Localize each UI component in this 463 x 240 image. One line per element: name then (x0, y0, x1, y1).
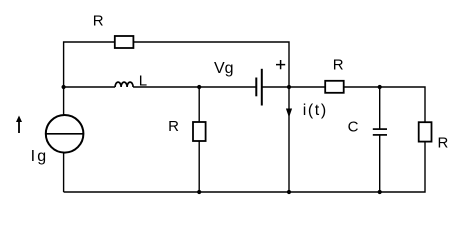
resistor R2 (193, 122, 206, 141)
svg-text:R: R (93, 13, 104, 30)
node junction dot B bottom (287, 190, 291, 194)
wire top-left vertical+horizontal to R1 (64, 42, 115, 87)
svg-text:i(t): i(t) (303, 102, 327, 119)
wire battery to node B (262, 86, 289, 88)
wire node B to R3 (289, 86, 325, 88)
wire capacitor branch lower (379, 135, 381, 192)
node junction dot A bottom (197, 190, 201, 194)
node junction dot C bottom (378, 190, 382, 194)
resistor R3 (325, 81, 344, 93)
svg-text:R: R (438, 134, 449, 151)
capacitor C top plate (373, 128, 387, 130)
current direction arrow (16, 116, 22, 134)
inductor L (115, 82, 133, 87)
resistor R1 (115, 36, 134, 48)
label plus sign (276, 60, 285, 69)
wire inductor to node A (133, 86, 199, 88)
node junction dot A top (197, 85, 201, 89)
resistor R4 (419, 122, 432, 141)
battery Vg short plate (255, 78, 257, 97)
svg-text:C: C (348, 118, 359, 135)
node junction dot B top (287, 85, 291, 89)
wire battery branch vertical (288, 87, 290, 192)
wire left vertical below source (63, 153, 65, 192)
current arrow i(t) (286, 109, 292, 118)
svg-text:Vg: Vg (214, 60, 234, 77)
wire top right of R1 (133, 42, 289, 87)
wire capacitor branch upper (379, 87, 381, 129)
battery Vg long plate (261, 69, 263, 106)
svg-text:R: R (333, 57, 344, 74)
current source Ig circle (46, 115, 84, 153)
node junction dot C top (378, 85, 382, 89)
wire left vertical above source (63, 87, 65, 115)
wire right branch lower (64, 142, 425, 192)
wire middle left segment (64, 86, 116, 88)
wire middle branch upper (198, 87, 200, 122)
wire middle branch lower (198, 141, 200, 192)
svg-text:Ig: Ig (31, 148, 46, 165)
capacitor C bottom plate (373, 134, 387, 136)
node junction dot left (62, 85, 66, 89)
current source Ig chord (46, 133, 84, 135)
wire node C to right branch (380, 87, 425, 122)
wire R3 to node C (344, 86, 380, 88)
wire node A to battery (199, 86, 256, 88)
svg-text:R: R (168, 118, 179, 135)
